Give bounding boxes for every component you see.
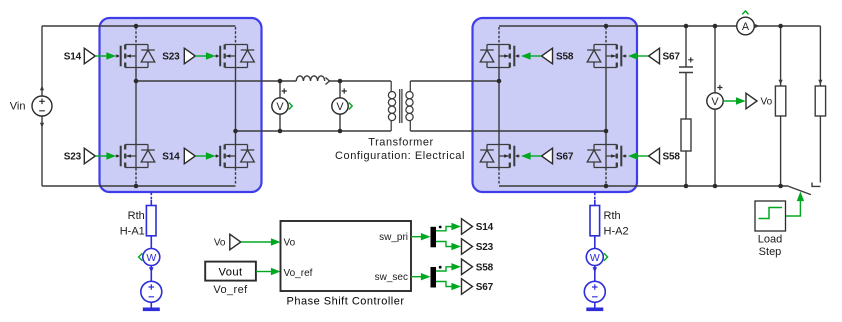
- goto tag S58: [462, 259, 494, 275]
- wire Q8 drain to node D: [605, 131, 607, 144]
- svg-text:Vin: Vin: [10, 101, 26, 113]
- svg-text:S58: S58: [476, 263, 494, 274]
- load resistor R1 branch: [780, 26, 782, 186]
- from tag S23 (Q2 gate): [162, 48, 215, 64]
- thermal resistor Rth H-A2: [590, 206, 600, 236]
- svg-text:A: A: [742, 21, 750, 33]
- wire Rth to W sensor right: [594, 236, 596, 249]
- constant block Vout: [205, 262, 256, 281]
- wire Rth to W sensor: [150, 236, 152, 249]
- from tag S14 (Q1 gate): [64, 48, 116, 64]
- wire W2 to temperature source: [594, 265, 596, 281]
- mosfet Q6 drain stub (dashed): [605, 27, 607, 44]
- wire transformer secondary bottom to bridge: [410, 130, 606, 132]
- demux 1: [431, 227, 437, 248]
- goto tag S23: [462, 239, 494, 255]
- from tag S67 (Q7 gate): [521, 148, 574, 164]
- wire transformer secondary top to bridge: [410, 80, 499, 82]
- wire demux2 out1 to S58: [436, 267, 452, 271]
- wire Q3 source stub (dashed): [135, 168, 137, 185]
- wire bottom rail right: [499, 185, 789, 187]
- load resistor R1: [775, 86, 785, 116]
- demux 2: [431, 267, 437, 288]
- subsystem block H-A1 (primary bridge background): [100, 18, 262, 192]
- voltage sensor V2: [332, 88, 352, 114]
- svg-text:Vo_ref: Vo_ref: [284, 268, 313, 279]
- mosfet Q5 drain stub (dashed): [498, 27, 500, 44]
- wire demux2 out2 to S67: [436, 282, 452, 287]
- voltage source Vin: [32, 86, 52, 128]
- from tag Vo (controller input): [214, 234, 281, 250]
- wire Vin vertical bottom: [41, 116, 43, 186]
- from tag S14 (Q4 gate): [162, 148, 215, 164]
- voltage sensor V2 branch wires: [339, 81, 341, 131]
- switch SW1 (load step switch): [789, 183, 821, 195]
- from tag S23 (Q3 gate): [64, 148, 116, 164]
- svg-text:Phase Shift Controller: Phase Shift Controller: [287, 296, 405, 308]
- from tag S58 (Q5 gate): [521, 48, 574, 64]
- svg-text:Vout: Vout: [219, 266, 243, 278]
- load resistor R2 branch: [819, 26, 821, 183]
- temperature source T1: [141, 281, 162, 302]
- from tag S58 (Q8 gate): [628, 148, 680, 164]
- voltage sensor V1: [272, 88, 292, 114]
- subsystem block H-A2 (secondary bridge background): [473, 18, 638, 192]
- step source block Load Step: [755, 201, 786, 231]
- wire source to ground: [150, 302, 152, 307]
- svg-text:Vo: Vo: [761, 97, 773, 108]
- wire C1 to ESR resistor: [685, 73, 687, 120]
- temperature source T2: [584, 281, 605, 302]
- svg-text:Configuration: Electrical: Configuration: Electrical: [335, 150, 465, 162]
- svg-text:W: W: [146, 252, 156, 264]
- svg-text:V: V: [276, 101, 284, 113]
- goto tag S14: [462, 219, 494, 235]
- wire Vout to controller: [256, 271, 272, 273]
- junction node dots primary: [134, 24, 139, 29]
- wire Q7 source stub (dashed): [498, 168, 500, 185]
- svg-text:S14: S14: [64, 52, 82, 63]
- mosfet Q4 (S14 primary bottom-right): [215, 145, 254, 168]
- transformer T1: [388, 81, 413, 131]
- mosfet Q3 (S23 primary bottom-left): [115, 145, 154, 168]
- wire Q5 source to node C: [498, 68, 500, 81]
- wire V3 to goto tag Vo: [723, 100, 741, 102]
- wire ESR to bottom rail: [685, 151, 687, 186]
- load step control wire: [786, 200, 801, 217]
- svg-text:Rth: Rth: [604, 210, 621, 222]
- wire Q3 drain to node A: [135, 81, 137, 144]
- ammeter A1: [737, 11, 760, 35]
- load resistor R2: [815, 86, 825, 116]
- svg-text:Vo: Vo: [214, 238, 226, 249]
- svg-text:S14: S14: [162, 152, 180, 163]
- thermal ground right: [586, 308, 603, 312]
- wire sw_pri to demux1: [411, 236, 422, 238]
- wire Q8 source stub (dashed): [605, 168, 607, 185]
- svg-text:S58: S58: [556, 52, 574, 63]
- junction node dots secondary: [497, 79, 502, 84]
- wire demux1 out2 to S23: [436, 242, 452, 247]
- mosfet Q2 drain stub (dashed): [235, 27, 237, 44]
- svg-text:H-A2: H-A2: [604, 226, 629, 238]
- svg-text:Rth: Rth: [128, 210, 145, 222]
- wire Vin vertical top: [41, 26, 43, 96]
- wire primary leg A mid (bridge out+ to inductor): [136, 80, 296, 82]
- wire Q6 source to node D: [605, 68, 607, 131]
- svg-text:S67: S67: [476, 282, 494, 293]
- wire Q1 source to node A: [135, 68, 137, 81]
- wire primary mid lower (bridge out- to transformer): [236, 130, 392, 132]
- goto tag Vo: [746, 93, 773, 109]
- thermal port wire H-A1 (dashed): [150, 193, 152, 201]
- inductor L1: [296, 76, 329, 85]
- thermal port wire H-A2 (dashed): [594, 193, 596, 201]
- mosfet Q8 (S58 secondary bottom-right): [587, 145, 626, 168]
- svg-text:Vo: Vo: [284, 238, 296, 249]
- svg-text:S67: S67: [663, 52, 681, 63]
- svg-text:W: W: [590, 252, 600, 264]
- from tag S67 (Q6 gate): [628, 48, 680, 64]
- svg-text:Step: Step: [759, 246, 782, 258]
- heat flow sensor W1: [139, 249, 160, 266]
- voltage sensor V3 (output): [707, 85, 723, 109]
- svg-text:Vo_ref: Vo_ref: [213, 284, 248, 296]
- mosfet Q6 (S67 secondary top-right): [587, 45, 626, 68]
- svg-text:S23: S23: [476, 242, 494, 253]
- voltage sensor V1 branch wires: [279, 81, 281, 131]
- wire Q2 source to node B: [235, 68, 237, 131]
- capacitor C1: [679, 57, 693, 72]
- mosfet Q2 (S23 primary top-right): [215, 45, 254, 68]
- svg-text:sw_sec: sw_sec: [375, 272, 408, 283]
- svg-text:V: V: [711, 96, 719, 108]
- wire W1 to temperature source: [150, 265, 152, 281]
- mosfet Q1 (S14 primary top-left): [115, 45, 154, 68]
- svg-text:S58: S58: [663, 152, 681, 163]
- svg-text:H-A1: H-A1: [120, 226, 145, 238]
- wire source to ground right: [594, 302, 596, 307]
- thermal resistor Rth H-A1: [146, 206, 156, 236]
- goto tag S67: [462, 279, 494, 295]
- thermal ground left: [143, 308, 160, 312]
- wire inductor to transformer: [330, 80, 392, 82]
- svg-text:S67: S67: [556, 152, 574, 163]
- voltage sensor V3 branch wires: [714, 26, 716, 186]
- capacitor C1 branch top wire: [685, 26, 687, 67]
- mosfet Q5 (S58 secondary top-left): [480, 45, 519, 68]
- heat flow sensor W2: [586, 249, 607, 266]
- svg-text:S23: S23: [162, 52, 180, 63]
- wire Q4 source stub (dashed): [235, 168, 237, 185]
- mosfet Q7 (S67 secondary bottom-left): [480, 145, 519, 168]
- wire top rail right: [499, 25, 820, 27]
- wire bottom rail left (Vin- to bridge): [42, 185, 236, 187]
- mosfet Q1 drain stub (dashed): [135, 27, 137, 44]
- wire Q4 drain to node B: [235, 131, 237, 144]
- svg-text:V: V: [336, 101, 344, 113]
- wire Q7 drain to node C: [498, 81, 500, 144]
- svg-text:S23: S23: [64, 152, 82, 163]
- wire top rail left (Vin+ to bridge): [42, 25, 236, 27]
- resistor R-esr: [681, 119, 691, 151]
- svg-text:sw_pri: sw_pri: [379, 232, 408, 243]
- wire demux1 out1 to S14: [436, 227, 452, 231]
- subsystem Phase Shift Controller: [281, 221, 412, 291]
- svg-text:Transformer: Transformer: [368, 137, 434, 149]
- wire sw_sec to demux2: [411, 276, 422, 278]
- svg-text:S14: S14: [476, 222, 494, 233]
- svg-text:Load: Load: [758, 234, 782, 246]
